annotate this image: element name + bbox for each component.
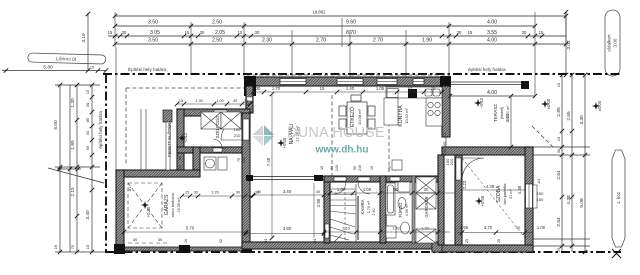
1.koz annotation	[612, 150, 625, 247]
svg-text:12.21 m²: 12.21 m²	[506, 105, 510, 121]
svg-text:15: 15	[185, 30, 190, 35]
svg-text:4.38: 4.38	[486, 184, 495, 189]
svg-text:60: 60	[178, 165, 182, 169]
svg-text:240: 240	[335, 165, 339, 171]
svg-text:45: 45	[233, 99, 237, 103]
szoba right wall	[525, 147, 533, 252]
svg-text:2.30: 2.30	[262, 38, 272, 44]
svg-text:210: 210	[242, 157, 246, 163]
svg-text:15: 15	[320, 86, 325, 91]
svg-text:21 m²: 21 m²	[509, 188, 513, 198]
svg-text:90: 90	[353, 166, 357, 170]
interior wall stair right	[380, 176, 386, 243]
chimney	[408, 89, 417, 98]
svg-text:15: 15	[108, 30, 113, 35]
door spec labels	[320, 165, 397, 171]
svg-text:1.55: 1.55	[460, 225, 469, 230]
interior wall above stairs/kamra	[324, 176, 444, 182]
porch column strip	[163, 110, 172, 122]
svg-text:15: 15	[539, 30, 544, 35]
szoba window right	[526, 184, 533, 208]
svg-text:O1: O1	[264, 239, 268, 244]
svg-text:90: 90	[330, 166, 334, 170]
svg-text:8.70: 8.70	[346, 30, 356, 36]
door arcs interior	[213, 139, 400, 194]
svg-text:30: 30	[158, 237, 163, 242]
svg-text:építési hely határa: építési hely határa	[468, 67, 506, 72]
svg-text:3.00: 3.00	[613, 38, 618, 47]
svg-text:2.23: 2.23	[462, 180, 467, 189]
NE corner pier	[440, 76, 451, 87]
svg-text:210: 210	[449, 158, 454, 165]
svg-text:4.38: 4.38	[517, 185, 522, 194]
svg-text:3.55: 3.55	[487, 30, 497, 36]
svg-text:30: 30	[255, 191, 259, 195]
entry small dim row	[177, 103, 250, 105]
svg-text:15: 15	[85, 89, 90, 94]
svg-text:2.15: 2.15	[70, 187, 76, 197]
svg-text:oldalkert: oldalkert	[607, 34, 612, 52]
svg-text:30: 30	[516, 226, 520, 230]
svg-text:3.60: 3.60	[283, 226, 292, 231]
svg-text:90: 90	[442, 141, 447, 146]
svg-text:15: 15	[556, 136, 561, 141]
svg-text:-0.43: -0.43	[183, 133, 188, 143]
svg-text:1.70: 1.70	[272, 86, 281, 91]
svg-text:240: 240	[442, 148, 447, 155]
svg-text:5.08: 5.08	[579, 198, 585, 208]
wc room fixtures	[204, 157, 227, 170]
svg-text:4.00: 4.00	[487, 90, 497, 96]
szoba left wall	[455, 155, 462, 245]
garage bottom wall	[116, 247, 248, 251]
svg-text:75: 75	[237, 158, 241, 162]
svg-text:1.40: 1.40	[392, 227, 399, 231]
svg-text:240: 240	[358, 165, 362, 171]
svg-text:KAMRA: KAMRA	[360, 199, 365, 214]
thin wall stair/kamra	[357, 196, 359, 240]
svg-text:3.40: 3.40	[85, 210, 91, 220]
boiler box konyha	[392, 160, 402, 170]
svg-text:30: 30	[256, 86, 261, 91]
svg-text:-0.43: -0.43	[479, 98, 484, 108]
svg-text:15: 15	[468, 30, 473, 35]
svg-text:1.90: 1.90	[422, 38, 432, 44]
svg-text:15: 15	[179, 99, 183, 103]
extension lines down to building	[115, 47, 117, 170]
garage left wall	[116, 170, 124, 250]
svg-text:SZOBA: SZOBA	[496, 185, 502, 203]
svg-text:Lőrinci út: Lőrinci út	[56, 56, 77, 63]
door arc szelfogo-nappali	[221, 119, 242, 140]
svg-text:210: 210	[234, 133, 241, 138]
svg-text:30: 30	[424, 187, 429, 192]
svg-text:1.40: 1.40	[346, 86, 355, 91]
svg-text:5.70: 5.70	[186, 226, 195, 231]
main bottom wall	[242, 242, 438, 249]
svg-text:10: 10	[320, 166, 324, 170]
svg-text:62: 62	[219, 239, 223, 243]
svg-text:A1: A1	[128, 187, 132, 192]
svg-text:±0.00: ±0.00	[597, 100, 602, 111]
svg-text:+0.30: +0.30	[146, 206, 151, 217]
svg-text:SZÉLFOGÓ: SZÉLFOGÓ	[215, 115, 220, 139]
bathroom fixtures	[386, 182, 410, 238]
svg-text:10: 10	[85, 244, 90, 249]
svg-text:30: 30	[255, 30, 260, 35]
main top wall	[246, 77, 450, 86]
svg-text:25: 25	[465, 239, 469, 243]
svg-text:építési hely határa: építési hely határa	[98, 111, 103, 149]
svg-text:±0.00: ±0.00	[546, 98, 551, 109]
svg-text:1.20: 1.20	[421, 227, 428, 231]
svg-text:150: 150	[537, 197, 544, 202]
svg-text:O1: O1	[313, 239, 317, 244]
svg-text:3.02: 3.02	[566, 40, 572, 50]
svg-text:1. köz: 1. köz	[616, 191, 621, 204]
svg-text:2.64: 2.64	[556, 217, 562, 227]
svg-text:ÉTKEZŐ: ÉTKEZŐ	[349, 107, 356, 127]
svg-text:3.19: 3.19	[81, 33, 87, 43]
entry top wall	[177, 109, 250, 116]
szoba diagonal + level	[462, 158, 525, 238]
svg-text:4.38: 4.38	[566, 195, 572, 205]
svg-text:30: 30	[522, 30, 527, 35]
svg-text:30: 30	[556, 148, 561, 153]
svg-text:30: 30	[431, 86, 436, 91]
svg-text:1.30: 1.30	[70, 98, 76, 108]
svg-text:1.30: 1.30	[195, 99, 202, 103]
svg-text:30: 30	[85, 102, 90, 107]
kitchen counters	[384, 87, 442, 126]
svg-text:10: 10	[370, 166, 374, 170]
svg-text:2.70: 2.70	[316, 38, 326, 44]
svg-text:Építési hely határa: Építési hely határa	[128, 66, 166, 72]
svg-text:90: 90	[236, 191, 240, 195]
szoba top wall	[442, 147, 533, 155]
interior thin wall furdo/gardrob	[412, 176, 415, 243]
svg-text:5.80: 5.80	[43, 65, 53, 71]
svg-text:30: 30	[200, 30, 205, 35]
svg-text:2.50: 2.50	[212, 38, 222, 44]
svg-text:10.08 m²: 10.08 m²	[357, 108, 362, 124]
svg-text:2.64: 2.64	[556, 170, 562, 180]
svg-text:15: 15	[185, 191, 189, 195]
svg-text:3.50: 3.50	[148, 20, 158, 26]
svg-text:1.00: 1.00	[216, 99, 223, 103]
wc stub wall	[193, 147, 200, 170]
svg-text:FEDETT ELŐTÉR: FEDETT ELŐTÉR	[167, 123, 172, 157]
gardrob shelves	[416, 177, 436, 243]
svg-text:100: 100	[234, 127, 241, 132]
svg-text:15: 15	[238, 30, 243, 35]
svg-text:1.70 m²: 1.70 m²	[367, 200, 371, 213]
svg-text:85: 85	[222, 146, 226, 150]
svg-text:A1: A1	[536, 178, 541, 184]
svg-text:30: 30	[194, 191, 198, 195]
svg-text:57: 57	[408, 86, 413, 91]
svg-text:75: 75	[388, 166, 392, 170]
main left wall upper	[246, 86, 253, 113]
svg-text:nincs burkolva: nincs burkolva	[171, 192, 175, 217]
svg-text:DUNA HOUSE: DUNA HOUSE	[287, 125, 385, 141]
NW corner pier	[244, 76, 256, 96]
svg-text:3.50: 3.50	[148, 38, 158, 44]
interior wall gardrob right	[438, 155, 444, 245]
svg-text:65: 65	[85, 145, 90, 150]
svg-text:1.20: 1.20	[211, 191, 218, 195]
svg-text:(fedett): (fedett)	[500, 106, 504, 119]
svg-text:3.40: 3.40	[283, 189, 292, 194]
svg-text:+0.45: +0.45	[480, 195, 485, 206]
street annotation Lorinci ut	[28, 53, 106, 64]
entry left wall	[177, 109, 184, 177]
svg-text:2.70: 2.70	[373, 38, 383, 44]
svg-text:GARÁZS: GARÁZS	[163, 194, 170, 215]
svg-text:2.40: 2.40	[372, 209, 376, 216]
main right wall (kitchen)	[442, 86, 450, 137]
dining table	[339, 95, 375, 134]
svg-text:1.65: 1.65	[70, 140, 76, 150]
oldalkert annotation	[605, 10, 620, 76]
svg-text:2.05: 2.05	[215, 30, 225, 36]
svg-text:A1: A1	[442, 132, 447, 138]
svg-text:1.00: 1.00	[363, 187, 372, 192]
door arc szoba	[462, 158, 484, 180]
svg-text:30: 30	[244, 99, 248, 103]
svg-text:16: 16	[53, 244, 58, 249]
svg-text:25: 25	[497, 239, 501, 243]
svg-text:75: 75	[70, 244, 75, 249]
svg-text:7.48: 7.48	[266, 157, 271, 166]
szelfogo X cabinets	[201, 112, 241, 129]
svg-text:85: 85	[85, 117, 90, 122]
szoba bottom wall	[432, 245, 533, 252]
svg-text:15: 15	[90, 66, 94, 70]
svg-text:4.00: 4.00	[487, 38, 497, 44]
svg-text:3.05: 3.05	[150, 30, 160, 36]
door arc entry	[214, 116, 227, 129]
svg-text:lam.parketta: lam.parketta	[503, 183, 507, 205]
svg-text:2.85: 2.85	[556, 107, 562, 117]
svg-text:30: 30	[122, 30, 127, 35]
svg-text:9.60: 9.60	[346, 20, 356, 26]
garage dashes 30	[128, 242, 168, 244]
svg-text:2.98: 2.98	[316, 198, 321, 207]
svg-text:60: 60	[178, 156, 182, 160]
svg-text:GARDRÓB: GARDRÓB	[424, 196, 429, 217]
svg-text:30: 30	[133, 237, 138, 242]
svg-text:4.60 m²: 4.60 m²	[405, 203, 409, 216]
svg-text:3.30: 3.30	[579, 115, 585, 125]
svg-text:30: 30	[457, 30, 462, 35]
svg-text:150: 150	[537, 191, 544, 196]
svg-text:4.00: 4.00	[487, 20, 497, 26]
svg-text:10.52 m²: 10.52 m²	[404, 107, 409, 123]
svg-text:1.00: 1.00	[537, 225, 546, 230]
svg-text:2.10: 2.10	[342, 227, 349, 231]
svg-text:www.dh.hu: www.dh.hu	[315, 145, 369, 156]
svg-text:30: 30	[85, 130, 90, 135]
beam over nappali	[253, 177, 324, 180]
szelfogo bottom wall	[177, 147, 242, 153]
windows in top wall	[280, 79, 424, 85]
svg-text:1.05: 1.05	[376, 86, 385, 91]
svg-text:5.00: 5.00	[53, 120, 59, 130]
svg-text:FÜRDŐ: FÜRDŐ	[398, 202, 403, 218]
svg-text:1.00: 1.00	[337, 187, 346, 192]
svg-text:19.862: 19.862	[313, 10, 326, 15]
svg-text:2.65: 2.65	[566, 111, 572, 121]
svg-text:10: 10	[184, 239, 188, 243]
interior wall stair left	[324, 176, 330, 243]
svg-text:TERASZ: TERASZ	[493, 104, 498, 122]
svg-text:15: 15	[556, 82, 561, 87]
svg-text:19.35 m²: 19.35 m²	[177, 197, 181, 213]
wall between entry and nappali	[242, 113, 250, 245]
garage top wall	[116, 170, 200, 177]
svg-text:30: 30	[316, 190, 320, 194]
svg-text:2.50: 2.50	[212, 20, 222, 26]
svg-text:3.70: 3.70	[484, 225, 493, 230]
svg-text:90: 90	[394, 187, 399, 192]
